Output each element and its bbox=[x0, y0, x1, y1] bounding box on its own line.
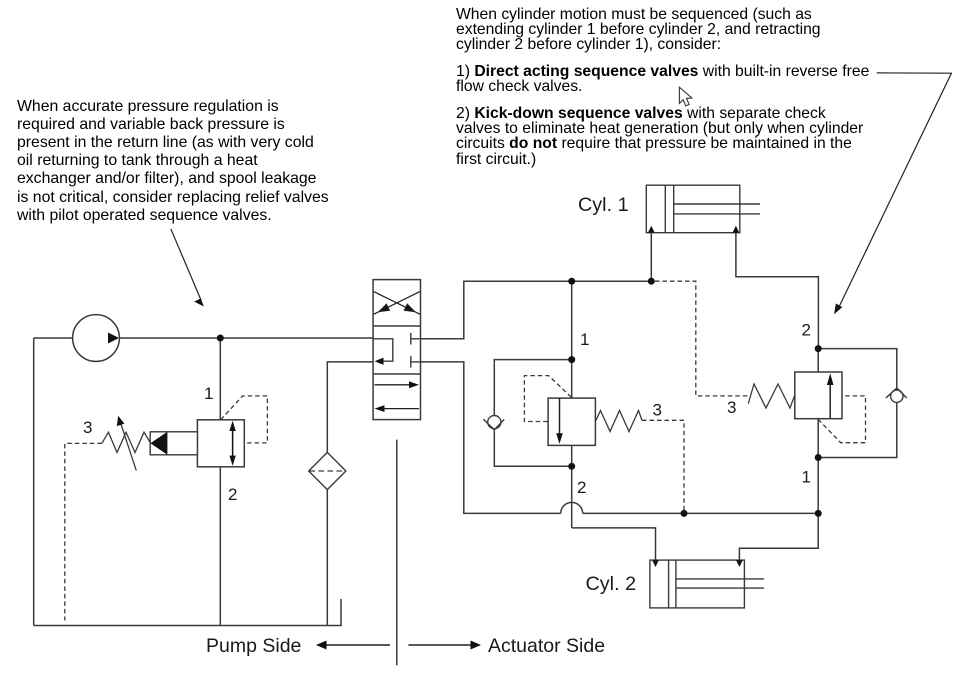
wire: lower rail hop over cyl2 line bbox=[561, 502, 583, 513]
valve V3 drain dashed loop bbox=[818, 396, 865, 443]
valve V3 body (kick-down sequence valve) bbox=[795, 372, 842, 419]
valve V3 remote pilot dashed from cyl1 line bbox=[655, 281, 866, 443]
wire: valve V3 main line bbox=[817, 349, 819, 372]
svg-text:3: 3 bbox=[653, 401, 662, 420]
pump-actuator divider line bbox=[396, 440, 398, 666]
wire: valve V1 inlet drop bbox=[219, 338, 221, 420]
valve V1 flow double arrow bbox=[232, 429, 234, 458]
svg-text:Actuator Side: Actuator Side bbox=[488, 635, 605, 657]
wire: B-port line up to actuator rail bbox=[421, 281, 652, 339]
check valve CV1 bbox=[488, 416, 501, 429]
valve V2 spring bbox=[595, 411, 642, 432]
wire: left rail vertical bbox=[33, 338, 35, 626]
DV1 top section crossed arrows bbox=[374, 292, 420, 315]
filter F1 diamond bbox=[309, 452, 346, 489]
valve V1 pilot dashed loop bbox=[221, 396, 268, 443]
right paragraphs bbox=[456, 7, 896, 179]
mouse cursor bbox=[679, 87, 691, 106]
DV1 bottom section straight arrows bbox=[375, 385, 420, 409]
DV1 centre section: P to T path bbox=[373, 339, 393, 361]
wire: valve V1 outlet drop bbox=[219, 467, 221, 626]
cyl1 port arrows bbox=[648, 226, 655, 233]
node: V3 check branch bottom bbox=[815, 454, 822, 461]
left paragraph bbox=[17, 98, 353, 225]
svg-text:1: 1 bbox=[204, 384, 213, 403]
svg-text:Pump Side: Pump Side bbox=[206, 635, 301, 657]
node: lower rail / cyl2 right bbox=[815, 510, 822, 517]
valve V1 drain dashed line bbox=[65, 396, 268, 621]
node: V2 check branch bottom bbox=[568, 463, 575, 470]
cyl2 port arrows bbox=[652, 560, 659, 567]
node: pump-valve junction bbox=[217, 335, 224, 342]
pointer arrow from right text bbox=[838, 73, 951, 309]
pump side arrow bbox=[325, 644, 390, 646]
node: V3 check branch top bbox=[815, 345, 822, 352]
valve V3 up arrow bbox=[829, 382, 831, 419]
pump triangle bbox=[108, 333, 119, 344]
wire: valve V2 main line bbox=[571, 281, 573, 398]
valve V2 pilot dashed loop bbox=[524, 376, 684, 514]
svg-text:Cyl. 2: Cyl. 2 bbox=[586, 573, 637, 595]
wire: lower rail right part bbox=[583, 512, 819, 514]
svg-text:1: 1 bbox=[802, 468, 811, 487]
valve V3 spring bbox=[748, 384, 795, 408]
svg-text:2: 2 bbox=[577, 478, 586, 497]
wire: pump outlet line bbox=[34, 337, 73, 339]
wire: check valve CV2 branch bbox=[818, 349, 897, 390]
svg-text:2: 2 bbox=[228, 485, 237, 504]
junction dots bbox=[217, 278, 822, 517]
valve V1 body (pump side sequence valve) bbox=[197, 420, 244, 467]
cylinder CYL2 body bbox=[650, 560, 764, 608]
valve V2 remote pilot dashed to rail bbox=[642, 420, 684, 513]
valve V1 pilot piston box bbox=[150, 432, 197, 455]
wire: A-port line down to lower rail bbox=[421, 362, 561, 514]
svg-text:3: 3 bbox=[83, 418, 92, 437]
pump P1 circle bbox=[73, 315, 120, 362]
check valve CV2 bbox=[891, 390, 903, 402]
wire: to cyl2 left port bbox=[572, 528, 656, 560]
wire: rail to cyl2 right port bbox=[739, 513, 818, 560]
valve V1 adjust arrow bbox=[121, 423, 137, 471]
cylinder CYL1 body bbox=[646, 185, 760, 233]
directional valve DV1 body bbox=[373, 280, 420, 420]
svg-text:2: 2 bbox=[802, 321, 811, 340]
node: V2 check branch top bbox=[568, 356, 575, 363]
DV1 centre section blocked ports bbox=[411, 333, 421, 368]
wire: bottom rail bbox=[34, 599, 341, 626]
valve V2 body (first sequence valve) bbox=[548, 398, 595, 445]
svg-text:1: 1 bbox=[580, 330, 589, 349]
node: cyl1 port junction bbox=[648, 278, 655, 285]
node: cyl1 rail left bbox=[568, 278, 575, 285]
wire: cyl1 left port drop bbox=[650, 233, 652, 282]
svg-text:Cyl. 1: Cyl. 1 bbox=[578, 194, 629, 216]
node: pilot tap on lower rail bbox=[681, 510, 688, 517]
wire: cyl1 right port to valve V3 bbox=[736, 233, 819, 349]
actuator side arrow bbox=[408, 644, 472, 646]
svg-text:3: 3 bbox=[727, 398, 736, 417]
valve V1 pilot triangle bbox=[150, 432, 167, 455]
wire: filter branch to tank bbox=[327, 362, 373, 453]
wire: check valve CV1 branch bbox=[494, 360, 571, 416]
pointer arrow from left text bbox=[171, 229, 201, 300]
valve V1 spring bbox=[102, 432, 150, 452]
valve V2 down arrow bbox=[559, 398, 561, 436]
